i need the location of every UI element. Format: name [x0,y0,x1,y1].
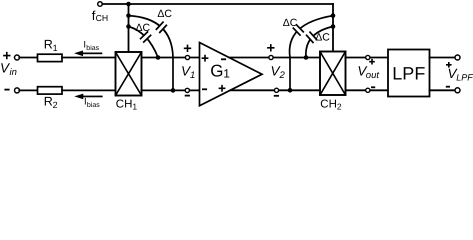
wire LPF to VLPF top [430,57,456,59]
label V2 minus mark [274,95,279,97]
input terminal minus [15,88,20,93]
junction dC2 to V1- [171,88,176,93]
wire input top [19,57,37,59]
node clock2 dot upper [331,13,336,18]
label Vin plus mark [3,52,10,59]
wire left outer arc (cap dC2 path) [129,16,174,91]
junction dC3 to V2- [288,88,293,93]
label V1 plus mark [184,45,191,52]
node clock2 dot lower [331,24,336,29]
node clock1 dot lower [126,24,131,29]
chopper CH2 cross [320,52,346,96]
label opamp output plus mark [219,85,226,92]
arrow Ibias bottom [74,94,102,100]
svg-text:G: G [210,62,223,81]
wire input bottom [19,89,37,91]
wire CH2 to LPF bottom [346,89,389,91]
wire CH2 clock drop [332,4,334,52]
svg-text:LPF: LPF [456,72,473,82]
svg-text:R: R [44,37,53,51]
terminal VLPF plus [455,55,460,60]
wire R2 to CH1 [62,89,116,91]
wire fCH top rail [102,3,333,5]
chopper CH1 cross [116,52,142,96]
wire opamp out top (V2 rail) [229,57,320,59]
label opamp output minus mark [221,58,226,60]
capacitor dC2 (left outer) [155,21,168,34]
svg-text:2: 2 [53,100,58,110]
junction dC4 to V2+ [304,55,309,60]
capacitor dC3 (right outer) [292,24,305,37]
svg-text:ΔC: ΔC [157,8,172,20]
label V1 minus mark [185,95,190,97]
svg-text:2: 2 [337,102,342,112]
wire right inner arc (cap dC4 path) [306,27,333,58]
label Vin minus mark [4,89,9,91]
svg-text:ΔC: ΔC [283,17,298,29]
svg-text:bias: bias [87,101,100,109]
label V2 plus mark [267,44,274,51]
svg-text:R: R [44,94,53,108]
svg-text:CH: CH [116,99,133,111]
wire opamp out bottom (V2 rail) [231,89,320,91]
junction fCH/CH1 clock [126,2,131,7]
input terminal plus [15,55,20,60]
wire LPF to VLPF bottom [430,89,456,91]
svg-text:ΔC: ΔC [136,22,151,34]
svg-text:CH: CH [96,13,109,23]
node clock1 dot upper [126,13,131,18]
svg-text:1: 1 [132,102,137,112]
svg-text:CH: CH [320,99,337,111]
wire CH2 to LPF top [346,57,389,59]
label opamp input plus mark [202,55,209,62]
svg-text:LPF: LPF [392,64,425,84]
port V1 plus circle [185,55,189,59]
wire CH1 clock drop [128,4,130,52]
svg-text:2: 2 [279,70,286,81]
node fCH terminal circle [98,2,103,7]
wire left inner arc (cap dC1 path) [129,27,159,58]
svg-text:out: out [366,70,380,81]
terminal VLPF minus [455,88,460,93]
label VLPF minus mark [446,86,450,88]
wire right outer arc (cap dC3 path) [290,16,333,91]
resistor R1 [38,54,63,61]
label Vout plus mark [369,59,375,65]
LPF block [388,50,430,97]
chopper CH1 box [116,52,142,96]
wire CH1 to opamp bottom [142,89,200,91]
port V1 minus circle [185,88,189,92]
chopper CH2 box [320,52,346,96]
port Vout minus circle [366,88,370,92]
port V2 minus circle [274,88,278,92]
wire R1 to CH1 [62,57,116,59]
svg-text:ΔC: ΔC [315,31,330,43]
capacitor dC1 (left inner) [139,31,152,44]
svg-text:1: 1 [223,66,230,80]
port Vout plus circle [366,55,370,59]
capacitor dC4 (right inner) [305,31,317,44]
label Vout minus mark [371,86,375,88]
svg-text:bias: bias [86,44,99,52]
svg-text:1: 1 [53,43,58,53]
arrow Ibias top [74,51,102,57]
svg-text:1: 1 [190,70,195,81]
port V2 plus circle [269,55,273,59]
svg-text:in: in [10,67,17,78]
wire CH1 to opamp top [142,57,200,59]
label VLPF plus mark [446,62,452,68]
resistor R2 [38,87,63,94]
junction dC1 to V1+ [156,55,161,60]
label opamp input minus mark [202,88,207,90]
op-amp G1 triangle [200,43,263,106]
